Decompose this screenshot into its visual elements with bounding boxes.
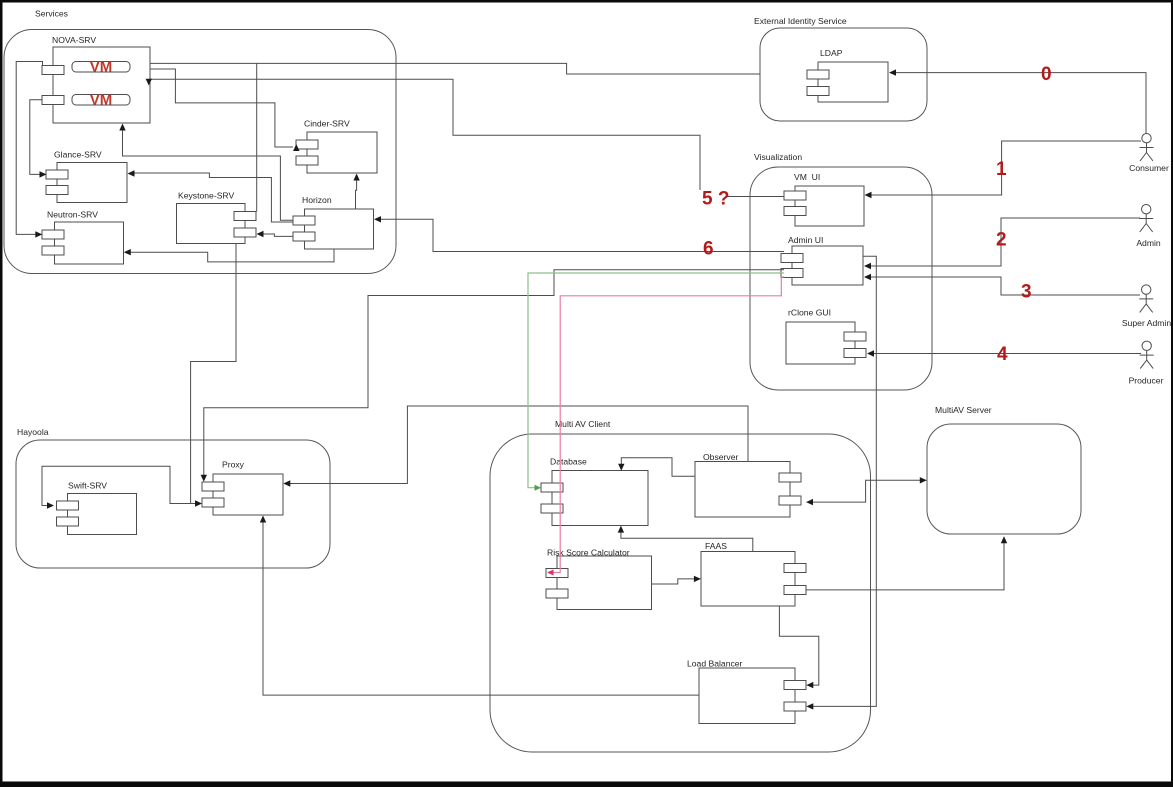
wire Admin UI right to Load Balancer port2	[806, 256, 876, 709]
component Glance-SRV	[46, 150, 127, 203]
group Visualization	[750, 152, 932, 390]
component Load Balancer	[687, 659, 806, 724]
svg-text:MultiAV Server: MultiAV Server	[935, 405, 992, 415]
wire Admin UI to Proxy port1	[201, 270, 784, 482]
component rClone GUI	[786, 308, 866, 365]
wire 4 Producer to rClone GUI	[867, 344, 1141, 365]
component Cinder-SRV	[296, 119, 377, 174]
svg-text:0: 0	[1041, 64, 1052, 85]
svg-text:5 ?: 5 ?	[702, 189, 729, 210]
group Multi AV Client	[490, 419, 871, 752]
svg-text:Load Balancer: Load Balancer	[687, 659, 743, 669]
svg-text:Admin: Admin	[1136, 238, 1161, 248]
component Swift-SRV	[57, 481, 137, 535]
wire FAAS bottom to Load Balancer port1	[779, 606, 818, 688]
component Proxy	[202, 460, 283, 516]
svg-text:2: 2	[996, 230, 1007, 251]
wire Keystone bottom to Proxy port2	[191, 244, 236, 507]
component Database	[541, 457, 648, 526]
actor Super Admin	[1122, 285, 1171, 328]
wire 3 Super Admin to Admin UI	[864, 274, 1140, 303]
svg-text:Services: Services	[35, 9, 68, 19]
svg-text:External Identity Service: External Identity Service	[754, 16, 847, 26]
wire NOVA-SRV to External Identity Service	[150, 63, 760, 74]
svg-text:Proxy: Proxy	[222, 460, 245, 470]
svg-text:rClone GUI: rClone GUI	[788, 308, 831, 318]
svg-text:Producer: Producer	[1129, 376, 1164, 386]
wire branch to Keystone port1	[256, 63, 258, 211]
group Hayoola	[16, 427, 330, 568]
svg-text:FAAS: FAAS	[705, 541, 727, 551]
wire Load Balancer to Proxy bottom	[260, 516, 699, 696]
component LDAP	[807, 48, 888, 102]
svg-text:NOVA-SRV: NOVA-SRV	[52, 35, 96, 45]
wire MultiAV Server to Observer port2	[806, 477, 927, 505]
svg-text:Multi AV Client: Multi AV Client	[555, 419, 611, 429]
svg-text:3: 3	[1021, 282, 1032, 303]
wire Horizon port1 to Glance-SRV	[128, 170, 294, 222]
wire FAAS port2 to MultiAV Server bottom	[806, 536, 1007, 590]
wire Risk Score to FAAS	[652, 576, 701, 584]
component Neutron-SRV	[42, 210, 124, 265]
svg-text:VM UI: VM UI	[794, 172, 820, 182]
component FAAS	[701, 541, 806, 606]
actor Producer	[1129, 341, 1164, 385]
wire Swift-SRV to Proxy port2	[42, 466, 195, 508]
wire Horizon bottom to Neutron-SRV	[124, 249, 334, 262]
svg-text:LDAP: LDAP	[820, 48, 843, 58]
svg-text:Keystone-SRV: Keystone-SRV	[178, 191, 234, 201]
svg-text:Horizon: Horizon	[302, 195, 332, 205]
wire magenta Admin UI to Risk Score port1	[547, 277, 784, 576]
component VM UI	[784, 172, 864, 226]
svg-text:Admin UI: Admin UI	[788, 235, 823, 245]
svg-text:6: 6	[703, 239, 714, 260]
group MultiAV Server	[927, 405, 1081, 534]
NOVA port2 to Glance port1	[30, 100, 47, 178]
wire Observer top to Proxy right	[283, 406, 748, 487]
svg-text:Cinder-SRV: Cinder-SRV	[304, 119, 350, 129]
wire NOVA-SRV to Cinder-SRV	[150, 69, 300, 151]
component NOVA-SRV	[42, 35, 150, 123]
node VM 1	[72, 59, 130, 76]
wire Observer left to Database top	[618, 458, 695, 477]
wire green Admin UI to Database port1	[528, 273, 784, 491]
svg-text:Swift-SRV: Swift-SRV	[68, 481, 107, 491]
svg-text:Visualization: Visualization	[754, 152, 802, 162]
group External Identity Service	[754, 16, 927, 121]
wire Horizon port1 to NOVA bottom	[119, 124, 293, 221]
svg-text:VM: VM	[90, 59, 113, 76]
wire 5 VM UI to NOVA-SRV	[146, 79, 784, 210]
actor Consumer	[1129, 134, 1169, 174]
wire 6 Admin UI to Horizon	[374, 216, 784, 259]
svg-text:Super Admin: Super Admin	[1122, 318, 1171, 328]
svg-text:Neutron-SRV: Neutron-SRV	[47, 210, 98, 220]
group Services	[4, 9, 396, 274]
svg-text:VM: VM	[90, 92, 113, 109]
actor Admin	[1136, 205, 1161, 249]
svg-text:1: 1	[996, 159, 1007, 180]
svg-text:4: 4	[997, 344, 1008, 365]
svg-text:Hayoola: Hayoola	[17, 427, 49, 437]
wire FAAS top to Database bottom	[618, 526, 753, 552]
wire 2 Admin to Admin UI	[864, 218, 1140, 269]
component Risk Score Calculator	[546, 548, 652, 610]
svg-text:Glance-SRV: Glance-SRV	[54, 150, 102, 160]
wire Horizon port2 to Keystone port2	[257, 231, 294, 237]
wire 0 Consumer to LDAP	[889, 64, 1146, 134]
wire 1 Consumer to VM UI	[865, 141, 1142, 198]
svg-text:Consumer: Consumer	[1129, 163, 1169, 173]
component Admin UI	[781, 235, 863, 285]
svg-text:Risk Score Calculator: Risk Score Calculator	[547, 548, 630, 558]
wire Horizon top to Cinder bottom	[353, 174, 359, 210]
component Observer	[695, 452, 801, 517]
component Keystone-SRV	[177, 191, 257, 244]
NOVA port1 to Neutron port1	[16, 62, 42, 238]
node VM 2	[72, 92, 130, 109]
svg-text:Database: Database	[550, 457, 587, 467]
svg-text:Observer: Observer	[703, 452, 738, 462]
component Horizon	[293, 195, 374, 249]
